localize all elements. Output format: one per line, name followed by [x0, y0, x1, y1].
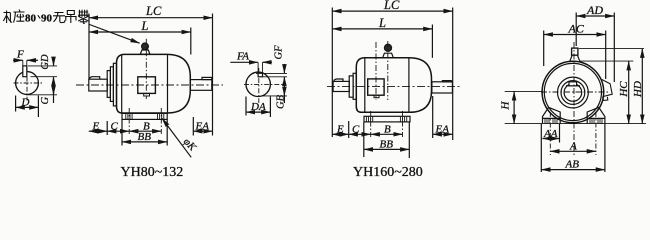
motor 1 frame joint line rear: [167, 55, 169, 113]
dimension BB (motor 2): [364, 122, 410, 158]
motor 2 front foot hole centerline: [370, 111, 372, 137]
end view shaft key: [566, 82, 580, 86]
motor 2 foot plate: [364, 116, 410, 122]
svg-text:HC: HC: [618, 81, 630, 98]
dimension D (section 1): [16, 96, 39, 118]
section 2 crosshair centerlines: [244, 68, 286, 103]
motor 2 rear foot hole centerline: [402, 111, 404, 137]
svg-text:E: E: [336, 124, 344, 136]
dimension LC (motor 1): [89, 4, 213, 136]
svg-text:H: H: [500, 100, 512, 110]
座: [14, 10, 25, 23]
机: [3, 11, 12, 24]
motor 2 body outline: [356, 58, 431, 113]
svg-text:EA: EA: [195, 121, 210, 133]
motor 2 vertical centerline (dash-dot): [387, 41, 389, 100]
section 1 crosshair centerlines: [14, 67, 43, 101]
svg-text:AD: AD: [586, 3, 603, 17]
leader line from note to eyebolt of motor 1: [90, 25, 140, 44]
dimension BB (motor 1): [122, 120, 167, 146]
svg-text:C: C: [111, 121, 119, 133]
svg-text:AA: AA: [543, 128, 558, 140]
end view outer circle: [542, 61, 604, 123]
svg-text:BB: BB: [380, 139, 394, 151]
dimension G (section 1): [26, 81, 57, 104]
无: [53, 13, 65, 23]
motor 1 rear foot hole centerline: [160, 108, 162, 134]
motor 2 rear shaft stub: [432, 82, 453, 93]
end view horizontal centerline: [541, 91, 608, 93]
note digits 80 / 90: [25, 12, 53, 24]
svg-text:AC: AC: [568, 21, 585, 35]
svg-text:LC: LC: [145, 4, 162, 18]
motor 1 body outline: [117, 54, 191, 113]
motor 1 front foot hole centerline: [128, 108, 130, 134]
motor 2 front shaft: [333, 81, 349, 91]
svg-text:E: E: [92, 121, 100, 133]
motor 2 frame joint line rear: [408, 58, 410, 112]
dimension HD (end view): [579, 49, 644, 124]
end view left foot: [543, 107, 561, 123]
dimension L (motor 1): [89, 19, 191, 55]
end view hub circle outer: [558, 77, 589, 108]
motor 2 shaft key: [334, 79, 343, 81]
motor 1 shaft shoulder: [107, 71, 110, 98]
note text 机座80、90无吊攀 (drawn glyph strokes): [3, 10, 88, 24]
svg-text:YH160~280: YH160~280: [353, 165, 423, 179]
svg-text:φK: φK: [181, 136, 198, 154]
svg-text:D: D: [21, 97, 30, 109]
end view right foot hole centerline: [595, 112, 597, 155]
motor 2 body front face step: [353, 73, 356, 99]
svg-text:C: C: [352, 124, 360, 136]
end view terminal box (right side): [602, 79, 613, 100]
dimension L (motor 2): [332, 16, 432, 58]
dimension B (motor 1): [129, 121, 161, 133]
吊: [65, 11, 77, 24]
svg-text:L: L: [378, 16, 386, 30]
dimension F (section 1): [13, 49, 38, 66]
motor 2 terminal box: [368, 79, 384, 98]
dimension E (motor 1): [89, 121, 107, 135]
dimension EA (motor 2): [433, 96, 453, 138]
dimension C (motor 2): [349, 124, 371, 136]
end view right foot: [587, 107, 605, 123]
motor 2 shaft shoulder: [349, 76, 353, 97]
motor 1 front foot hole hatch: [126, 114, 132, 119]
svg-text:LC: LC: [383, 0, 400, 12]
svg-text:DA: DA: [250, 101, 266, 113]
dimension B (motor 2): [371, 124, 403, 136]
dimension GD (section 1): [28, 54, 57, 81]
dimension EA (motor 1): [193, 117, 212, 136]
motor 2 rear stub key step: [442, 81, 451, 82]
end view left foot hole centerline: [549, 112, 551, 155]
dimension HC (end view): [580, 61, 633, 124]
dimension AC (end view): [544, 21, 606, 79]
svg-text:HD: HD: [632, 81, 644, 98]
motor 1 shaft key: [90, 77, 100, 80]
svg-text:GF: GF: [274, 45, 285, 60]
end view vertical centerline: [573, 42, 575, 157]
dimension DA (section 2): [246, 97, 270, 118]
dimension AA (end view): [542, 124, 559, 143]
motor 2 terminal box centerline (dash-dot): [375, 42, 377, 100]
section 1 key: [23, 66, 27, 77]
motor 1 frame joint line front: [121, 55, 123, 113]
end view hub circle middle: [561, 81, 585, 105]
dimension GF (section 2): [256, 45, 287, 81]
、: [38, 15, 40, 18]
svg-text:GD: GD: [40, 54, 51, 70]
motor 2 horizontal centerline (dash-dot): [327, 86, 460, 88]
leader φK (motor 1 foot hole): [162, 118, 198, 157]
motor 2 rear foot hole hatch: [400, 117, 406, 122]
motor 1 rear stub key step: [202, 77, 212, 79]
svg-text:EA: EA: [435, 124, 450, 136]
motor 2 front foot hole hatch: [366, 117, 372, 122]
end view eyebolt: [570, 48, 580, 61]
end view inner rim circle: [544, 63, 601, 120]
svg-text:B: B: [384, 124, 391, 136]
svg-text:YH80~132: YH80~132: [121, 165, 184, 179]
dimension FA (section 2): [230, 51, 272, 74]
svg-text:A: A: [569, 141, 577, 153]
dimension A (end view): [550, 141, 596, 153]
end view hub circle inner: [564, 84, 582, 102]
svg-text:FA: FA: [236, 51, 249, 63]
攀: [78, 10, 89, 24]
dimension H (end view): [500, 91, 646, 123]
motor 1 vertical centerline (dash-dot): [145, 39, 147, 99]
svg-text:G: G: [40, 96, 51, 104]
svg-text:90: 90: [41, 12, 53, 24]
dimension LC (motor 2): [332, 0, 452, 140]
svg-text:80: 80: [25, 12, 37, 24]
motor 1 front shaft: [89, 79, 107, 91]
svg-text:L: L: [141, 19, 149, 33]
motor 1 rear shaft stub: [190, 80, 212, 91]
dimension E (motor 2): [332, 121, 348, 138]
motor 2 frame joint line front: [364, 58, 366, 112]
motor 1 eyebolt: [140, 43, 150, 54]
svg-text:F: F: [16, 49, 24, 61]
motor 2 eyebolt: [383, 44, 394, 58]
dimension GB (section 2): [262, 81, 287, 109]
dimension C (motor 1): [107, 121, 129, 133]
dimension AD (end view): [576, 3, 614, 82]
motor 1 terminal box: [138, 77, 156, 96]
motor 1 horizontal centerline (dash-dot): [76, 84, 223, 86]
section 2 shaft circle: [246, 72, 270, 96]
motor 1 rear foot hole hatch: [158, 114, 164, 119]
svg-text:BB: BB: [138, 131, 152, 143]
section 1 shaft circle: [16, 72, 39, 95]
motor 1 foot plate: [122, 113, 167, 119]
dimension AB (end view): [541, 124, 605, 172]
svg-text:GB: GB: [275, 94, 286, 109]
section 2 key: [258, 73, 262, 77]
svg-text:AB: AB: [565, 159, 580, 171]
